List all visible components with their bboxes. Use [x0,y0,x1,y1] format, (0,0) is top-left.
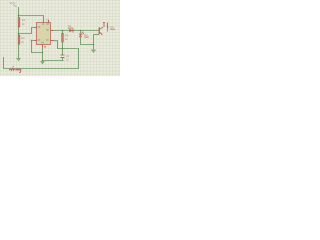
wire pin 2 TR jog down to GND pin wire [32,41,43,53]
svg-text:Q1: Q1 [110,25,114,29]
wire branch down to R3 [62,31,64,34]
node R1/R2 junction [18,33,20,35]
svg-text:R3: R3 [65,33,69,37]
node VCC rail junction [18,15,20,17]
label Q1 [110,25,115,30]
svg-text:VCC: VCC [10,1,16,5]
ground [40,61,45,64]
label C1 [66,54,70,61]
wire C1 bottom to GND rail [62,58,64,61]
schematic paper background [0,0,120,76]
node GND rail junction [42,60,44,62]
wire emitter horizontal [94,34,100,36]
pin 2 TR left stub [34,40,37,42]
power terminal VCC label [10,1,17,7]
label D1 [68,24,73,29]
pin 8 VCC top-left stub [43,21,45,23]
wire VCC down to R1 [18,7,20,18]
wire LED cathode down and right to emitter node [81,37,94,44]
pin 3 Q right stub [51,30,54,32]
pin 4 R top-right stub [48,20,50,23]
label R2 [21,36,25,44]
ground [91,50,97,54]
label D2 [84,33,88,38]
diode D1 [69,29,73,33]
capacitor C1 [61,55,65,58]
node R3 branch [62,30,64,32]
node jog crossing [42,52,44,54]
red script text bottom left [9,66,20,72]
wire branch down to LED [80,31,82,34]
label R3 [65,33,69,40]
wire pin 5 CV staircase to C1 node [54,41,63,49]
node C1 branch [62,48,64,50]
svg-text:R1: R1 [22,18,26,22]
buzzer BUZ1 [103,23,108,32]
pin name texts inside U1 [38,23,49,43]
svg-text:D1: D1 [68,24,72,28]
resistor R2 [18,35,20,44]
svg-text:C1: C1 [66,54,70,58]
pin 7 DC left stub [34,27,37,29]
wire R2 bottom to ground [18,44,20,58]
grid [0,0,120,76]
svg-text:R2: R2 [21,36,25,40]
node LED branch [80,30,82,32]
wire junction to IC pin 7 DC [19,28,34,34]
wire branch right, down, left and up the loop [4,49,79,69]
wire R1 bottom to R2 top [18,27,20,35]
node TR junction [31,40,33,42]
pin 5 CV right stub [51,40,54,42]
label R1 [22,18,26,26]
resistor R3 [62,33,64,42]
pin 1 number text [44,46,46,48]
wire emitter down to ground [93,35,95,50]
wire R3 bottom down to C1 [62,42,64,55]
wire output rail pin 3 to Q1 base [54,30,99,32]
ground [16,58,21,61]
op-amp U1 555 timer body [37,23,51,45]
resistor R1 [18,18,20,28]
wire VCC rail to IC pin 8 [19,16,44,21]
pin 1 GND bottom stub [42,45,44,48]
wire GND rail right to C1 [43,60,64,62]
transistor Q1 [99,27,103,35]
svg-text:D2: D2 [84,33,88,37]
LED D2 [79,32,84,37]
wire pin 1 GND down [42,47,44,61]
node emitter/ground junction [93,44,95,46]
